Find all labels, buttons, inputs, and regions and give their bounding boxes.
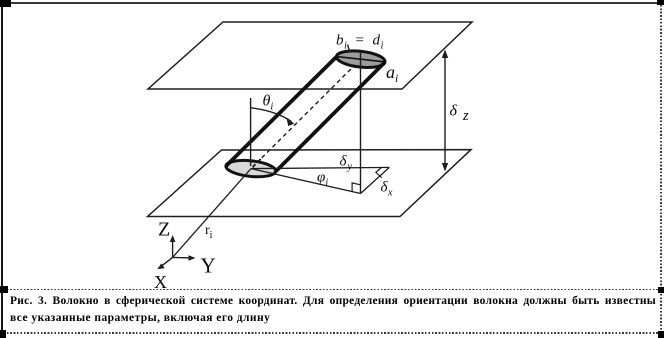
svg-text:ai: ai — [386, 62, 398, 85]
svg-text:φi: φi — [317, 170, 328, 189]
svg-text:Z: Z — [158, 219, 170, 241]
svg-text:bi = di: bi = di — [336, 33, 384, 52]
svg-text:Y: Y — [201, 254, 216, 278]
svg-text:ri: ri — [205, 223, 213, 241]
svg-text:X: X — [154, 272, 167, 292]
svg-text:δy: δy — [340, 154, 353, 173]
svg-text:δx: δx — [381, 180, 393, 199]
svg-text:δz: δz — [450, 103, 469, 125]
